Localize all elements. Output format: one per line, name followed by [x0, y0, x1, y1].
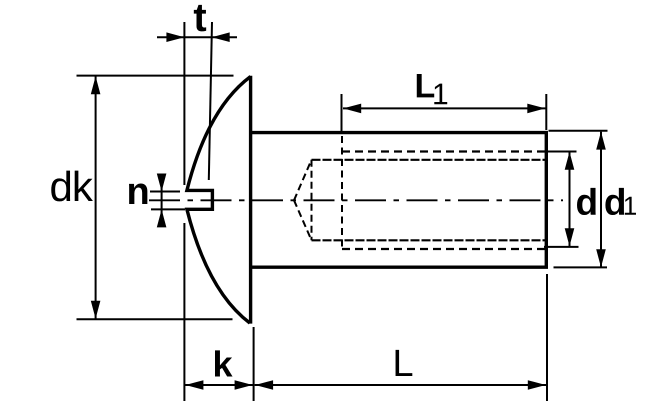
d arrow top	[565, 152, 575, 170]
label L1	[417, 74, 447, 104]
t arrow right	[212, 32, 230, 42]
internal thread: outer dashed top	[342, 150, 546, 152]
label L	[396, 350, 413, 376]
head flat right side	[249, 76, 252, 324]
label dk	[51, 171, 93, 202]
t dimension line	[157, 36, 237, 38]
dk arrow top	[91, 76, 101, 94]
label d1	[605, 188, 636, 215]
drill point lower leg	[294, 200, 312, 240]
d extension top	[548, 151, 577, 153]
L right extension	[546, 274, 548, 401]
thread start vertical dashed	[341, 136, 343, 249]
shank outline	[252, 133, 547, 268]
k dimension line	[184, 384, 253, 386]
d arrow bottom	[565, 228, 575, 246]
internal thread: outer dashed bottom	[342, 248, 546, 250]
dk dimension line	[95, 76, 97, 319]
d1 arrow top	[596, 132, 606, 150]
L1 extension right	[545, 94, 547, 130]
internal thread: inner (drill) near-solid top	[312, 159, 546, 161]
k arrow left	[185, 380, 203, 390]
L dimension line	[255, 384, 546, 386]
n arrow up	[157, 209, 167, 227]
label t	[194, 5, 206, 31]
n extension top	[150, 191, 180, 193]
L1 dimension line	[343, 107, 546, 109]
L arrow left	[255, 380, 273, 390]
drill point upper leg	[294, 160, 312, 201]
d1 extension bottom	[554, 266, 608, 268]
k right extension	[253, 327, 255, 401]
centerline (axis)	[149, 199, 563, 201]
dk extension bottom	[77, 318, 233, 320]
d1 dimension line	[600, 132, 602, 268]
t extension left	[183, 22, 185, 185]
t extension right	[209, 22, 212, 180]
L1 extension left	[341, 94, 343, 134]
dk arrow bottom	[91, 301, 101, 319]
drill full-diameter start vertical dashed	[311, 160, 313, 241]
d dimension line	[569, 152, 571, 246]
n arrow down	[157, 174, 167, 192]
n dimension vertical line	[161, 174, 163, 227]
k arrow right	[235, 380, 253, 390]
d1 arrow bottom	[596, 249, 606, 267]
L arrow right	[528, 380, 546, 390]
dk extension top	[77, 75, 234, 77]
t arrow left	[166, 32, 184, 42]
label d	[577, 188, 596, 215]
d extension bottom	[544, 246, 579, 248]
label n	[129, 184, 147, 204]
L1 arrow left	[343, 104, 361, 114]
L1 arrow right	[527, 104, 545, 114]
head outline with slot	[187, 77, 251, 324]
d1 extension top	[549, 130, 608, 132]
k/t shared left extension lower part	[183, 223, 185, 401]
internal thread: inner (drill) near-solid bottom	[312, 239, 546, 241]
label k	[215, 350, 233, 376]
n extension bottom	[151, 208, 185, 210]
